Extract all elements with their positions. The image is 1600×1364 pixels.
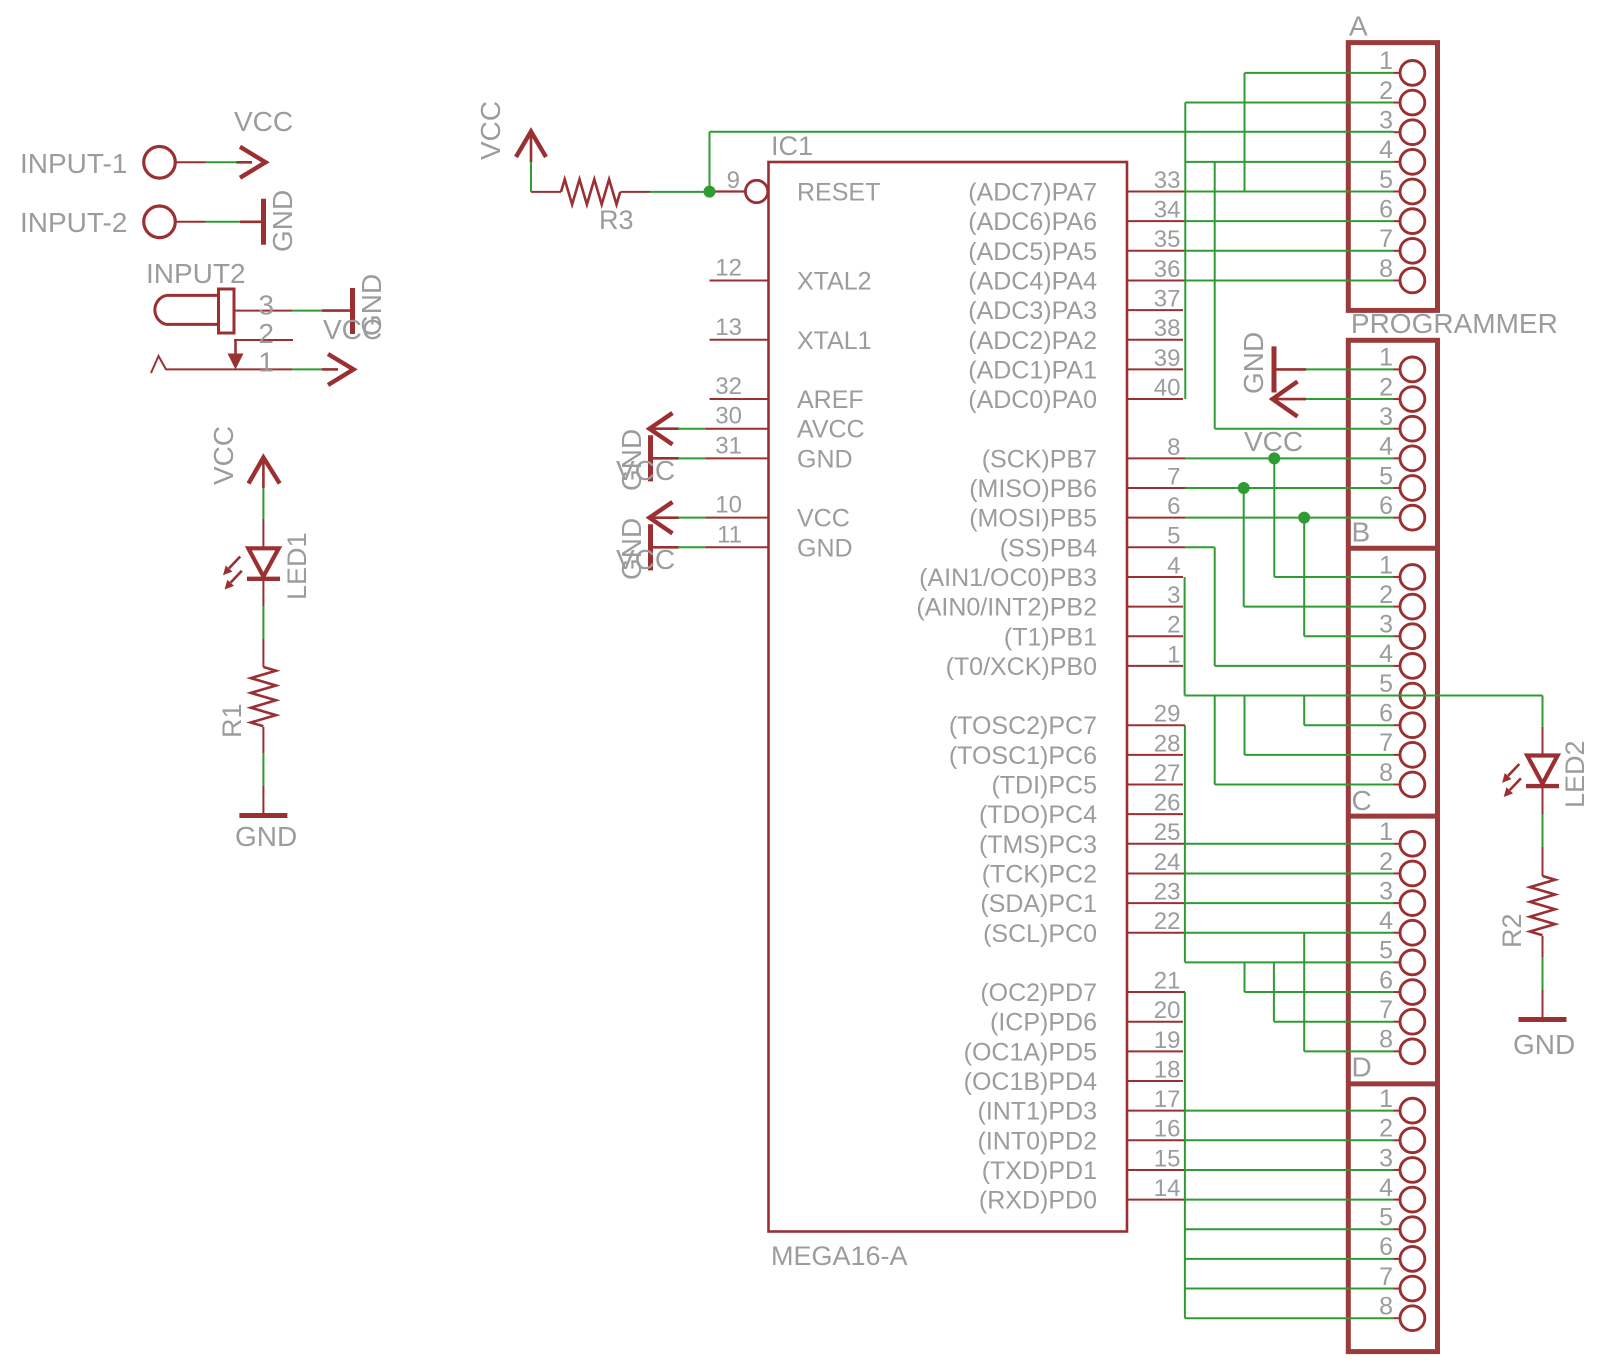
IC1 pin 33 lead: [1127, 191, 1185, 193]
IC1 pin 24 lead: [1127, 872, 1185, 874]
connector D pin 7 socket: [1394, 1288, 1401, 1290]
connector C pin 8 socket: [1394, 1050, 1401, 1052]
wire PA7 riser to connector A pin 1: [1244, 73, 1246, 192]
wire R3 to RESET node: [650, 191, 710, 193]
IC1 pin 31 GND wire: [705, 457, 769, 459]
svg-text:13: 13: [715, 314, 742, 341]
IC1 pin 11 GND wire: [705, 546, 769, 548]
IC1 pin 29 lead: [1127, 724, 1185, 726]
svg-text:(ADC1)PA1: (ADC1)PA1: [968, 356, 1097, 384]
svg-text:1: 1: [258, 347, 274, 378]
svg-text:1: 1: [1379, 47, 1393, 75]
svg-text:6: 6: [1379, 966, 1393, 994]
IC1 pin 16 lead: [1127, 1139, 1185, 1141]
svg-text:R2: R2: [1497, 913, 1527, 948]
connector B pin 3 socket: [1394, 635, 1401, 637]
connector A pin 4 socket: [1394, 161, 1401, 163]
svg-text:35: 35: [1154, 226, 1181, 253]
jack pin 1 wire with spring contact: [151, 356, 292, 373]
supply arrow VCC (LED1): [249, 458, 280, 484]
svg-text:11: 11: [717, 521, 742, 548]
divider PROGRAMMER/B: [1348, 546, 1437, 551]
wire RESET net to connector A pin 3: [709, 132, 711, 192]
connector PROGRAMMER pin 2 socket: [1394, 398, 1401, 400]
svg-text:4: 4: [1379, 136, 1393, 164]
wire PA6 to connector A pin 6: [1185, 220, 1394, 222]
IC1 pin 28 lead: [1127, 754, 1183, 756]
svg-text:(RXD)PD0: (RXD)PD0: [979, 1187, 1097, 1215]
svg-text:8: 8: [1379, 1026, 1393, 1054]
connector D pin 3 socket: [1394, 1169, 1401, 1171]
svg-text:24: 24: [1154, 849, 1181, 876]
connector PROGRAMMER pin 5 socket: [1394, 487, 1401, 489]
svg-text:8: 8: [1379, 255, 1393, 283]
svg-text:5: 5: [1379, 670, 1393, 698]
svg-text:36: 36: [1154, 256, 1181, 283]
wire LED2 to R2: [1542, 814, 1544, 847]
supply arrow VCC (R3): [516, 132, 546, 158]
LED1 light arrows: [229, 557, 240, 569]
svg-text:LED2: LED2: [1560, 740, 1590, 808]
connector A pin 8 socket: [1394, 279, 1401, 281]
svg-text:INPUT-1: INPUT-1: [20, 148, 127, 179]
wire branch to connector B pin 7: [1244, 696, 1246, 755]
connector C pin 1 socket: [1394, 843, 1401, 845]
svg-text:(ICP)PD6: (ICP)PD6: [990, 1009, 1097, 1037]
wire jack pin 1 to VCC: [292, 368, 322, 370]
IC1 pin 32 AREF: [710, 398, 769, 400]
IC1 pin 6 lead: [1127, 517, 1185, 519]
svg-text:4: 4: [1379, 640, 1393, 668]
connector C pin 3 socket: [1394, 902, 1401, 904]
svg-text:28: 28: [1154, 730, 1181, 757]
wire branch to connector C pin 6: [1244, 962, 1246, 992]
IC1 pin 40 lead: [1127, 398, 1183, 400]
svg-text:1: 1: [1167, 641, 1180, 668]
svg-text:32: 32: [715, 373, 742, 400]
svg-text:(AIN1/OC0)PB3: (AIN1/OC0)PB3: [919, 564, 1097, 592]
svg-text:2: 2: [1379, 1115, 1393, 1143]
wire PA4 to connector A pin 8: [1185, 279, 1394, 281]
svg-text:AREF: AREF: [797, 386, 864, 414]
connector B pin 4 socket: [1394, 665, 1401, 667]
svg-text:3: 3: [1379, 107, 1393, 135]
svg-text:3: 3: [1379, 611, 1393, 639]
wire SCK to PROGRAMMER pin 4 and B1: [1185, 457, 1394, 459]
svg-text:8: 8: [1167, 434, 1180, 461]
wire pin31 GND segment: [678, 457, 706, 459]
node RESET junction: [704, 186, 716, 198]
LED LED2: [1542, 727, 1544, 756]
svg-text:5: 5: [1379, 937, 1393, 965]
svg-text:12: 12: [715, 254, 742, 281]
connector PROGRAMMER pin 1 socket: [1394, 368, 1401, 370]
svg-text:(TOSC1)PC6: (TOSC1)PC6: [949, 742, 1097, 770]
svg-text:1: 1: [1379, 818, 1393, 846]
svg-text:7: 7: [1379, 729, 1393, 757]
svg-text:GND: GND: [1513, 1029, 1575, 1060]
IC1 pin 34 lead: [1127, 220, 1185, 222]
svg-text:1: 1: [1379, 344, 1393, 372]
svg-text:C: C: [1352, 785, 1372, 816]
svg-text:2: 2: [1167, 612, 1180, 639]
connector A box: [1348, 43, 1437, 311]
wire MISO to PROGRAMMER pin 5 and B2: [1185, 487, 1394, 489]
connector D pin 6 socket: [1394, 1258, 1401, 1260]
wire PD1 to connector D pin 3: [1185, 1169, 1394, 1171]
svg-text:(SCK)PB7: (SCK)PB7: [982, 445, 1097, 473]
svg-text:R1: R1: [217, 703, 247, 738]
svg-text:21: 21: [1154, 967, 1181, 994]
svg-text:2: 2: [1379, 581, 1393, 609]
svg-text:GND: GND: [235, 821, 297, 852]
svg-text:18: 18: [1154, 1056, 1181, 1083]
svg-text:RESET: RESET: [797, 179, 880, 207]
IC1 pin 12 XTAL2: [710, 279, 769, 281]
IC1 pin 20 lead: [1127, 1021, 1183, 1023]
svg-text:27: 27: [1154, 760, 1181, 787]
connector A pin 2 socket: [1394, 102, 1401, 104]
svg-text:14: 14: [1154, 1175, 1181, 1202]
connector B pin 2 socket: [1394, 606, 1401, 608]
IC1 pin 13 XTAL1: [710, 339, 769, 341]
connector A pin 7 socket: [1394, 250, 1401, 252]
svg-text:7: 7: [1379, 225, 1393, 253]
IC1 pin 27 lead: [1127, 784, 1183, 786]
svg-text:AVCC: AVCC: [797, 416, 865, 444]
IC1 pin 1 lead: [1127, 665, 1183, 667]
svg-text:D: D: [1352, 1052, 1372, 1083]
svg-text:4: 4: [1167, 552, 1180, 579]
wire MOSI to PROGRAMMER pin 6 and B3: [1185, 517, 1394, 519]
svg-text:(TXD)PD1: (TXD)PD1: [982, 1157, 1097, 1185]
connector B pin 1 socket: [1394, 576, 1401, 578]
svg-text:2: 2: [1379, 373, 1393, 401]
wire R1 to GND: [262, 753, 264, 786]
svg-text:6: 6: [1167, 493, 1180, 520]
IC1 pin 10 VCC wire: [705, 517, 769, 519]
svg-text:(OC1B)PD4: (OC1B)PD4: [964, 1068, 1097, 1096]
svg-text:17: 17: [1154, 1086, 1181, 1113]
svg-text:(ADC4)PA4: (ADC4)PA4: [968, 267, 1097, 295]
svg-text:GND: GND: [797, 534, 853, 562]
IC1 pin 14 lead: [1127, 1199, 1185, 1201]
connector B pin 6 socket: [1394, 724, 1401, 726]
wire PD2 to connector D pin 2: [1185, 1139, 1394, 1141]
svg-text:(T0/XCK)PB0: (T0/XCK)PB0: [946, 653, 1097, 681]
svg-text:VCC: VCC: [323, 314, 382, 345]
connector A pin 3 socket: [1394, 131, 1401, 133]
connector A pin 6 socket: [1394, 220, 1401, 222]
wire PC1 to connector C pin 3: [1185, 902, 1394, 904]
svg-text:(SCL)PC0: (SCL)PC0: [983, 920, 1097, 948]
svg-text:3: 3: [258, 290, 274, 321]
IC1 pin 3 lead: [1127, 606, 1183, 608]
IC1 pin 39 lead: [1127, 368, 1183, 370]
svg-text:A: A: [1349, 11, 1368, 42]
jack pin 3 wire: [234, 310, 292, 312]
svg-text:(AIN0/INT2)PB2: (AIN0/INT2)PB2: [916, 594, 1097, 622]
wire PC0 to connector C pin 4 and C8: [1185, 932, 1394, 934]
wire PA7 to connector A pin 5: [1185, 191, 1394, 193]
wire INPUT-1 to VCC: [205, 161, 237, 163]
svg-text:(SDA)PC1: (SDA)PC1: [980, 890, 1097, 918]
wire branch to connector B pin 6: [1303, 696, 1305, 726]
connector PROGRAMMER/B/C/D stacked box: [1348, 340, 1437, 1351]
IC1 pin 19 lead: [1127, 1050, 1183, 1052]
svg-text:VCC: VCC: [1244, 426, 1303, 457]
wire PB3 to connector B pin 5 and LED2: [1184, 577, 1186, 696]
svg-text:1: 1: [1379, 551, 1393, 579]
divider C/D: [1348, 1081, 1437, 1086]
svg-text:GND: GND: [797, 445, 853, 473]
pin wire INPUT-2: [175, 221, 206, 223]
svg-text:(ADC3)PA3: (ADC3)PA3: [968, 297, 1097, 325]
svg-text:R3: R3: [599, 205, 634, 235]
connector D pin 4 socket: [1394, 1199, 1401, 1201]
IC1 pin 8 lead: [1127, 457, 1185, 459]
svg-text:(ADC6)PA6: (ADC6)PA6: [968, 208, 1097, 236]
svg-text:LED1: LED1: [282, 532, 312, 600]
svg-text:4: 4: [1379, 1174, 1393, 1202]
wire PB4 to connector B pin 4: [1185, 546, 1215, 548]
IC1 pin 9 RESET with inversion bubble: [710, 190, 746, 192]
svg-text:(OC2)PD7: (OC2)PD7: [980, 979, 1097, 1007]
svg-text:(ADC5)PA5: (ADC5)PA5: [968, 238, 1097, 266]
svg-text:6: 6: [1379, 700, 1393, 728]
jack pin 2 switch contact: [234, 339, 293, 341]
svg-text:30: 30: [715, 403, 742, 430]
resistor R2: [1542, 847, 1544, 876]
svg-text:20: 20: [1154, 997, 1181, 1024]
wire pin11 GND segment: [678, 546, 706, 548]
connector D pin 1 socket: [1394, 1110, 1401, 1112]
svg-text:2: 2: [258, 318, 274, 349]
svg-text:6: 6: [1379, 1233, 1393, 1261]
svg-text:(TCK)PC2: (TCK)PC2: [982, 860, 1097, 888]
IC1 pin 35 lead: [1127, 250, 1185, 252]
svg-text:1: 1: [1379, 1085, 1393, 1113]
svg-text:B: B: [1352, 516, 1371, 547]
wire VCC to PROGRAMMER pin 2: [1306, 398, 1394, 400]
svg-text:VCC: VCC: [475, 101, 506, 160]
svg-text:GND: GND: [1238, 332, 1269, 394]
svg-text:8: 8: [1379, 1293, 1393, 1321]
svg-text:(ADC0)PA0: (ADC0)PA0: [968, 386, 1097, 414]
wire LED2 feed: [1542, 696, 1544, 727]
svg-text:IC1: IC1: [771, 131, 813, 161]
ground symbol GND (R2): [1542, 990, 1544, 1020]
ground symbol GND (INPUT-2): [240, 221, 262, 224]
resistor R1: [262, 639, 264, 667]
IC1 pin 2 lead: [1127, 635, 1183, 637]
svg-text:GND: GND: [616, 429, 647, 491]
IC1 pin 23 lead: [1127, 902, 1185, 904]
wire LED1 to R1: [262, 606, 264, 639]
svg-text:5: 5: [1379, 1204, 1393, 1232]
wire PD3 to connector D pin 1: [1185, 1110, 1394, 1112]
supply arrow VCC (PROGRAMMER pin 2): [1273, 398, 1307, 401]
svg-text:(T1)PB1: (T1)PB1: [1004, 623, 1097, 651]
svg-text:2: 2: [1379, 77, 1393, 105]
pin wire INPUT-1: [175, 161, 206, 163]
wire VCC to LED1: [262, 488, 264, 519]
wire jack pin 3 to GND: [292, 310, 322, 312]
wire GND to PROGRAMMER pin 1: [1306, 368, 1394, 370]
wire PA5 to connector A pin 7: [1185, 250, 1394, 252]
svg-text:38: 38: [1154, 315, 1181, 342]
connector C pin 4 socket: [1394, 932, 1401, 934]
svg-text:6: 6: [1379, 195, 1393, 223]
connector A pin 5 socket: [1394, 191, 1401, 193]
svg-text:37: 37: [1154, 286, 1181, 313]
svg-text:VCC: VCC: [234, 106, 293, 137]
wire PD0 to connector D pin 4: [1185, 1199, 1394, 1201]
ground symbol GND (jack pin 3): [322, 309, 350, 312]
connector C pin 7 socket: [1394, 1021, 1401, 1023]
svg-text:XTAL1: XTAL1: [797, 327, 872, 355]
svg-text:(MOSI)PB5: (MOSI)PB5: [969, 505, 1097, 533]
wire PD7 riser to connector D pins 5-8: [1184, 992, 1186, 1318]
svg-text:19: 19: [1154, 1027, 1181, 1054]
IC1 pin 7 lead: [1127, 487, 1185, 489]
svg-text:(TOSC2)PC7: (TOSC2)PC7: [949, 712, 1097, 740]
svg-text:6: 6: [1379, 492, 1393, 520]
IC1 pin 38 lead: [1127, 339, 1183, 341]
supply arrow VCC (pin 10): [650, 516, 680, 519]
svg-text:INPUT2: INPUT2: [146, 258, 246, 289]
wire riser to PROGRAMMER pin 3: [1214, 162, 1216, 429]
wire pin10 VCC segment: [678, 517, 706, 519]
connector B pin 8 socket: [1394, 784, 1401, 786]
svg-text:16: 16: [1154, 1116, 1181, 1143]
svg-text:INPUT-2: INPUT-2: [20, 207, 127, 238]
svg-text:7: 7: [1379, 1263, 1393, 1291]
svg-text:(TMS)PC3: (TMS)PC3: [979, 831, 1097, 859]
svg-text:5: 5: [1379, 166, 1393, 194]
svg-text:(TDI)PC5: (TDI)PC5: [991, 772, 1097, 800]
svg-text:34: 34: [1154, 197, 1181, 224]
supply arrow VCC (jack pin 1): [322, 368, 338, 371]
svg-text:4: 4: [1379, 433, 1393, 461]
connector D pin 2 socket: [1394, 1139, 1401, 1141]
IC1 pin 17 lead: [1127, 1110, 1185, 1112]
svg-text:XTAL2: XTAL2: [797, 267, 872, 295]
connector circle INPUT-1: [144, 147, 176, 179]
wire branch to connector B pin 8: [1214, 696, 1216, 785]
svg-text:39: 39: [1154, 345, 1181, 372]
svg-text:25: 25: [1154, 819, 1181, 846]
connector C pin 2 socket: [1394, 872, 1401, 874]
resistor R3: [531, 191, 561, 193]
connector D pin 5 socket: [1394, 1228, 1401, 1230]
connector A pin 1 socket: [1394, 72, 1401, 74]
svg-text:4: 4: [1379, 907, 1393, 935]
svg-text:3: 3: [1379, 403, 1393, 431]
IC1 pin 36 lead: [1127, 279, 1185, 281]
svg-text:7: 7: [1379, 996, 1393, 1024]
svg-text:(INT1)PD3: (INT1)PD3: [978, 1098, 1097, 1126]
svg-text:5: 5: [1379, 462, 1393, 490]
svg-text:33: 33: [1154, 167, 1181, 194]
wire R2 to GND: [1542, 957, 1544, 990]
svg-text:31: 31: [715, 432, 742, 459]
connector D pin 8 socket: [1394, 1317, 1401, 1319]
wire VCC to R3: [530, 162, 532, 192]
ground symbol GND (pin 31): [652, 457, 679, 460]
wire INPUT-2 to GND: [205, 221, 240, 223]
svg-text:26: 26: [1154, 790, 1181, 817]
connector PROGRAMMER pin 3 socket: [1394, 428, 1401, 430]
IC1 pin 25 lead: [1127, 843, 1185, 845]
svg-text:(INT0)PD2: (INT0)PD2: [978, 1127, 1097, 1155]
IC1 pin 15 lead: [1127, 1169, 1185, 1171]
svg-text:GND: GND: [616, 518, 647, 580]
connector C pin 6 socket: [1394, 991, 1401, 993]
connector B pin 5 socket: [1394, 695, 1401, 697]
svg-text:(TDO)PC4: (TDO)PC4: [979, 801, 1097, 829]
LED2 light arrows: [1508, 764, 1519, 776]
svg-text:VCC: VCC: [208, 426, 239, 485]
svg-text:3: 3: [1379, 877, 1393, 905]
IC1 pin 5 lead: [1127, 546, 1185, 548]
svg-text:22: 22: [1154, 908, 1181, 935]
wire branch to connector C pin 7: [1273, 962, 1275, 1021]
svg-text:23: 23: [1154, 879, 1181, 906]
svg-text:15: 15: [1154, 1145, 1181, 1172]
svg-text:MEGA16-A: MEGA16-A: [771, 1241, 908, 1271]
svg-text:3: 3: [1379, 1144, 1393, 1172]
wire to connector A pin 4: [1185, 161, 1393, 163]
IC1 pin 18 lead: [1127, 1080, 1183, 1082]
IC1 pin 21 lead: [1127, 991, 1185, 993]
LED LED1: [262, 519, 264, 548]
svg-text:5: 5: [1167, 523, 1180, 550]
ground symbol GND (PROGRAMMER pin 1): [1275, 368, 1306, 371]
connector B pin 7 socket: [1394, 754, 1401, 756]
IC1 pin 22 lead: [1127, 932, 1185, 934]
IC1 pin 37 lead: [1127, 309, 1183, 311]
svg-text:8: 8: [1379, 759, 1393, 787]
svg-text:PROGRAMMER: PROGRAMMER: [1351, 308, 1558, 339]
supply arrow VCC (pin 30): [650, 427, 680, 430]
svg-text:GND: GND: [267, 190, 298, 252]
wire PC7 riser to connector C pin 5: [1184, 725, 1186, 962]
IC1 pin 30 AVCC wire: [705, 428, 769, 430]
ground symbol GND (R1): [262, 786, 264, 816]
IC1 pin 26 lead: [1127, 813, 1183, 815]
supply arrow VCC (INPUT-1): [236, 161, 252, 164]
audio jack INPUT2 body: [155, 295, 166, 324]
op-amp U1 IC1 MEGA16-A body: [769, 162, 1128, 1232]
svg-text:40: 40: [1154, 374, 1181, 401]
wire AVCC supply segment: [678, 428, 706, 430]
svg-text:7: 7: [1167, 463, 1180, 490]
svg-text:(SS)PB4: (SS)PB4: [1000, 534, 1097, 562]
connector circle INPUT-2: [144, 206, 176, 238]
svg-text:(ADC7)PA7: (ADC7)PA7: [968, 179, 1097, 207]
svg-text:3: 3: [1167, 582, 1180, 609]
ground symbol GND (pin 11): [652, 546, 679, 549]
svg-text:VCC: VCC: [797, 505, 850, 533]
connector C pin 5 socket: [1394, 961, 1401, 963]
svg-text:9: 9: [727, 167, 740, 194]
wire PA0 vertical riser to connector A pin 2: [1184, 103, 1186, 400]
connector PROGRAMMER pin 6 socket: [1394, 517, 1401, 519]
svg-text:(ADC2)PA2: (ADC2)PA2: [968, 327, 1097, 355]
svg-text:10: 10: [715, 492, 742, 519]
svg-text:2: 2: [1379, 848, 1393, 876]
